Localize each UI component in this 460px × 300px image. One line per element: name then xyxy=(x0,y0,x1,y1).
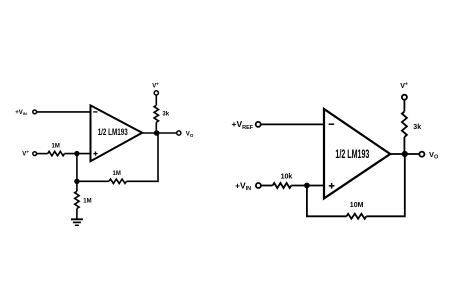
wire node C down and across to resistor R6 xyxy=(307,186,347,217)
node junction B xyxy=(74,179,79,184)
svg-text:1M: 1M xyxy=(83,198,91,204)
wire +VREF to inverting input xyxy=(261,123,324,125)
resistor R6 10M feedback (right) xyxy=(347,202,367,219)
op-amp U1 1/2 LM193 (left) xyxy=(91,105,143,161)
svg-text:3k: 3k xyxy=(162,112,169,118)
op-amp U2 1/2 LM193 (right) xyxy=(324,109,390,198)
svg-text:+VIN: +VIN xyxy=(15,110,27,116)
wire V+ to resistor R1 xyxy=(37,153,48,155)
resistor R3 1M to ground (left) xyxy=(75,181,92,219)
node +VIN input terminal (right circuit) xyxy=(235,180,261,192)
node output junction (left) xyxy=(154,130,160,136)
wire R2 to output riser xyxy=(127,133,159,181)
svg-text:1/2 LM193: 1/2 LM193 xyxy=(335,149,369,161)
resistor R2 1M feedback (left) xyxy=(109,171,127,184)
resistor R7 3k pull-up (right) xyxy=(402,100,421,154)
resistor R5 10k (right input) xyxy=(273,173,293,188)
node V+ pull-up terminal (right circuit) xyxy=(400,82,408,100)
svg-text:10k: 10k xyxy=(281,173,293,180)
svg-text:3k: 3k xyxy=(413,124,421,131)
resistor R4 3k pull-up (left) xyxy=(154,95,170,133)
wire +VIN to inverting input xyxy=(37,111,91,113)
node +VREF input terminal (right circuit) xyxy=(232,119,261,131)
wire R1 to + input with node xyxy=(65,153,91,155)
svg-text:1/2 LM193: 1/2 LM193 xyxy=(98,127,128,137)
wire R6 to output riser xyxy=(366,154,405,216)
wire +VIN to resistor R5 xyxy=(261,185,272,187)
wire R5 to + input xyxy=(291,185,324,187)
svg-text:1M: 1M xyxy=(52,143,60,149)
node junction C (+ input, right) xyxy=(304,183,310,189)
node VO output terminal (right) xyxy=(419,150,439,161)
wire op-amp output to VO terminal (right) xyxy=(390,153,419,155)
wire node B to feedback resistor R2 xyxy=(77,180,109,182)
ground symbol (left) xyxy=(71,219,83,225)
wire node A down to node B xyxy=(76,154,78,182)
node +VIN input terminal (left circuit) xyxy=(15,110,36,116)
svg-text:10M: 10M xyxy=(350,202,364,209)
node VO output terminal (left) xyxy=(177,131,194,138)
node output junction (right) xyxy=(402,151,408,157)
wire op-amp output to VO terminal xyxy=(142,132,176,134)
svg-text:1M: 1M xyxy=(113,171,121,177)
resistor R1 1M (V+ to non-inverting input) xyxy=(48,143,65,156)
svg-text:VO: VO xyxy=(186,132,194,138)
node V+ pull-up terminal (left circuit) xyxy=(152,82,159,96)
node V+ terminal for 1M bias (left circuit) xyxy=(22,150,36,158)
node junction A (+ input) xyxy=(74,151,79,156)
